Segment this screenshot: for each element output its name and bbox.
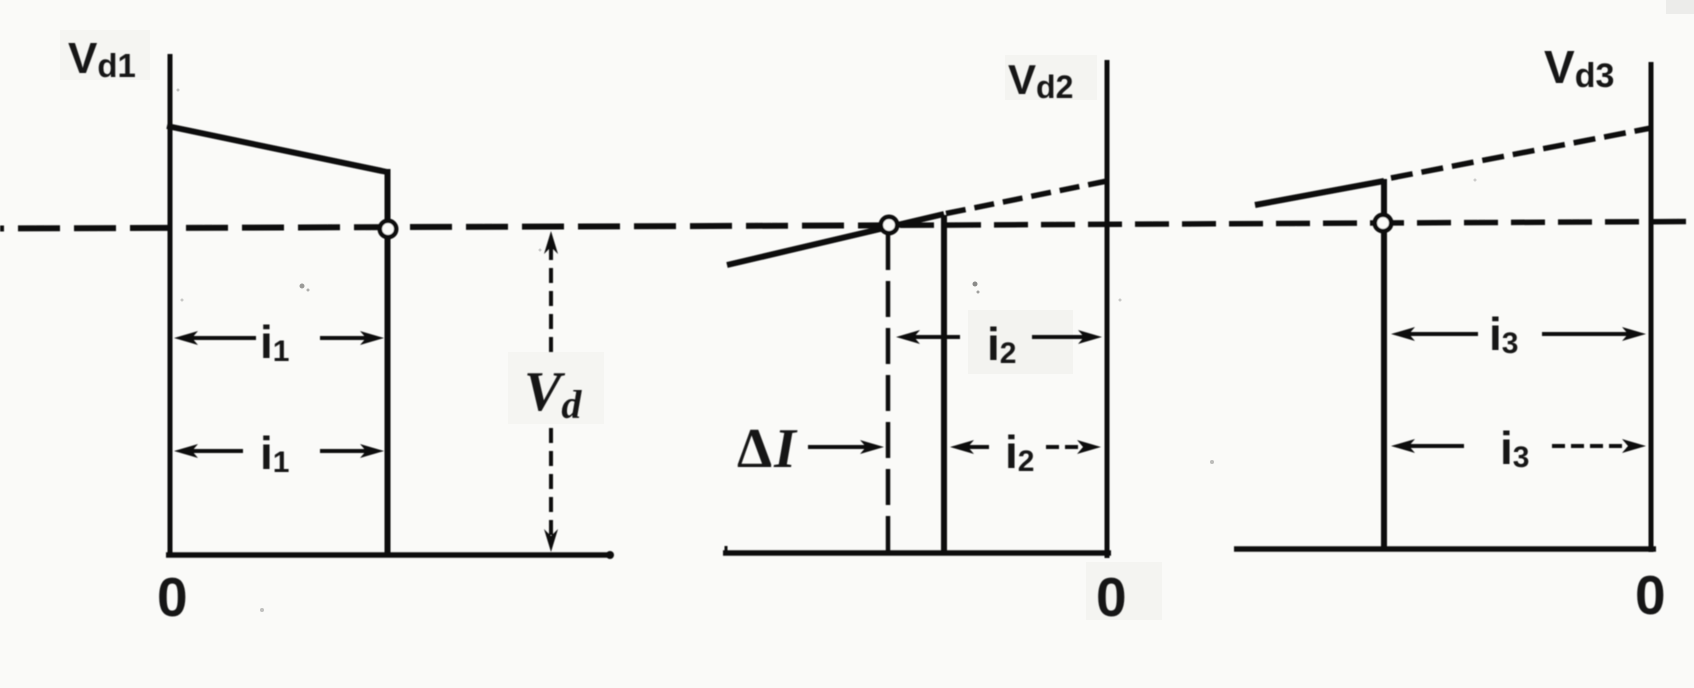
node graph1 bottom axis (166, 552, 610, 558)
dimension Vd vertical double arrow (549, 243, 553, 352)
dimension delta-I arrow (808, 445, 872, 449)
wire graph1 characteristic slope (167, 126, 387, 172)
node graph3 bottom axis (1234, 546, 1656, 552)
dimension i3 row1 arrows (1403, 332, 1478, 336)
svg-text:0: 0 (1096, 566, 1127, 628)
wire dashed Vd level line across all three graphs (0, 225, 880, 228)
node graph2 bottom axis (723, 550, 1111, 556)
dimension i1 row1 arrows (186, 336, 256, 340)
wire graph2 solid characteristic slope (727, 214, 944, 265)
wire graph2 dashed vertical at shifted current (886, 234, 891, 552)
node graph3 operating point circle (1375, 215, 1391, 231)
node graph2 operating point circle (881, 217, 897, 233)
wire graph1 vertical drop at i1 (385, 169, 391, 555)
svg-text:ΔI: ΔI (737, 418, 798, 480)
node graph3 V-axis (1649, 62, 1654, 552)
wire graph2 solid vertical at i2 (941, 215, 947, 553)
svg-text:0: 0 (157, 566, 188, 628)
wire graph3 dashed slope extension (1391, 128, 1651, 178)
wire graph2 dashed slope extension (946, 181, 1107, 214)
dimension i1 row2 arrows (186, 449, 243, 453)
dimension i2 row1 arrows (908, 335, 960, 339)
wire graph3 solid characteristic slope (1255, 181, 1384, 205)
wire graph3 vertical at i3 (1381, 179, 1387, 550)
dimension i3 row2 arrows (1403, 444, 1464, 448)
svg-text:0: 0 (1635, 564, 1666, 626)
node graph2 V-axis (1105, 60, 1110, 558)
dimension i2 row2 arrows (962, 445, 989, 449)
node graph1 V-axis (168, 54, 173, 557)
node graph1 operating point circle (380, 221, 396, 237)
